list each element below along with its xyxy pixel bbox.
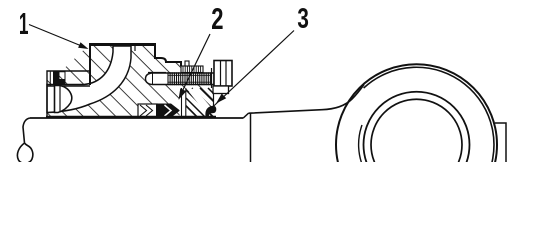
shaft top line bbox=[30, 117, 244, 119]
cap top thick line bbox=[89, 43, 156, 46]
big boss outer circle bbox=[336, 64, 497, 225]
counterbore arc bbox=[359, 125, 364, 169]
label 3 bbox=[298, 8, 308, 28]
small seal blob bbox=[205, 106, 216, 117]
seal flange outline bbox=[47, 71, 90, 117]
label 1 bbox=[20, 13, 28, 34]
bleed screw block bbox=[181, 61, 203, 73]
bolt shank bbox=[146, 73, 215, 85]
housing hatched body bbox=[47, 44, 214, 118]
bore outer circle bbox=[364, 92, 470, 198]
wedge white stripe bbox=[189, 88, 213, 115]
wedge hatch bbox=[186, 88, 214, 117]
bolt head bbox=[212, 61, 233, 89]
washer under head bbox=[213, 86, 229, 94]
water passage channel (white elbow) bbox=[47, 46, 131, 113]
spacer band bbox=[180, 88, 187, 117]
shaft left end bbox=[17, 118, 32, 163]
joint line bbox=[134, 45, 136, 51]
shaft step bbox=[244, 113, 249, 118]
chevron seal band bbox=[138, 104, 180, 118]
housing bottom thick line bbox=[46, 116, 216, 118]
flange behind boss bbox=[495, 123, 506, 162]
seal black square bbox=[54, 72, 66, 85]
cap outline bbox=[90, 44, 181, 85]
bolt boss top edge bbox=[148, 72, 166, 74]
label 2 bbox=[212, 8, 223, 29]
leader 3 bbox=[210, 31, 295, 111]
leader 1 bbox=[29, 25, 84, 48]
boss chamfer arc bbox=[364, 67, 494, 183]
big end vertical edge bbox=[250, 113, 252, 162]
black packing blob bbox=[156, 104, 180, 118]
shaft upper line right bbox=[249, 85, 365, 114]
bolt threads bbox=[168, 72, 211, 85]
leader 2 bbox=[180, 34, 211, 97]
bore chamfer circle bbox=[371, 99, 462, 190]
lip seal bullet bbox=[55, 86, 72, 113]
